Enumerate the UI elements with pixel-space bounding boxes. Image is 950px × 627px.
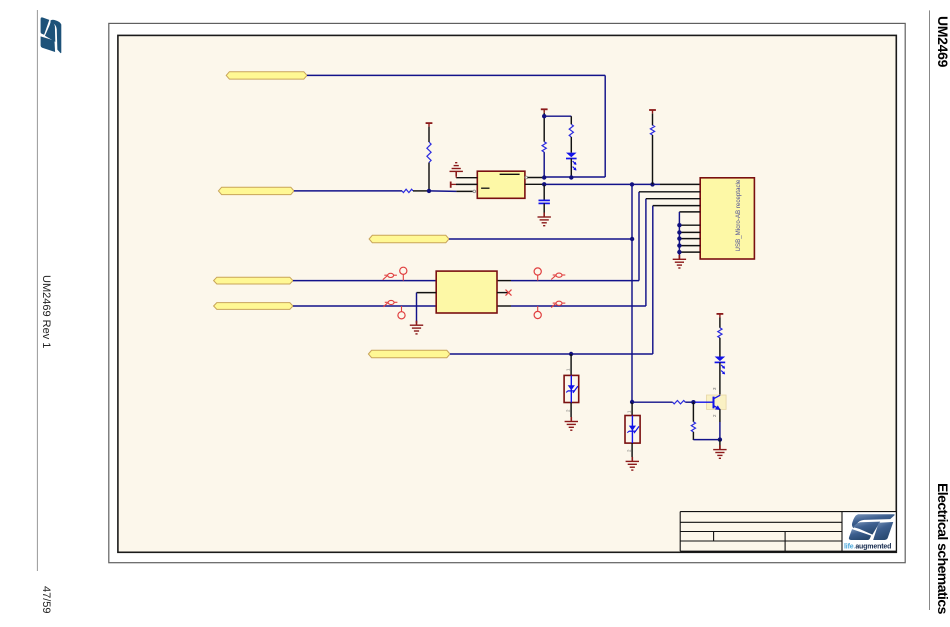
svg-text:USB_Micro-AB receptacle: USB_Micro-AB receptacle: [735, 179, 742, 251]
svg-text:life.augmented: life.augmented: [844, 544, 891, 551]
